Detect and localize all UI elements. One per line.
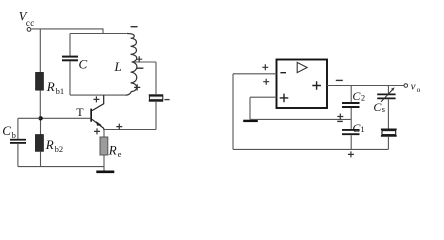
svg-text:R: R bbox=[45, 137, 54, 152]
wire C2 top lead bbox=[350, 86, 352, 103]
svg-text:o: o bbox=[417, 85, 421, 94]
plus left of Re top bbox=[94, 128, 100, 134]
svg-text:e: e bbox=[118, 149, 122, 159]
wire tank left lower bbox=[69, 61, 71, 95]
capacitor C bbox=[62, 57, 88, 72]
plus below rail bbox=[348, 151, 354, 157]
svg-text:b2: b2 bbox=[55, 144, 64, 154]
node Vcc bbox=[19, 9, 35, 31]
ground bar bbox=[243, 120, 258, 122]
wire ground to C1C2 junction bbox=[250, 118, 351, 120]
wire inverting input bbox=[233, 73, 277, 75]
svg-text:s: s bbox=[382, 104, 385, 114]
wire left feedback vertical bbox=[232, 74, 234, 150]
wire tank bottom bbox=[70, 94, 127, 96]
wire Cs top lead bbox=[387, 86, 389, 94]
svg-text:1: 1 bbox=[360, 124, 364, 134]
wire inductor tap bbox=[132, 61, 156, 63]
resistor Rb2 bbox=[35, 121, 63, 167]
minus above inductor bbox=[131, 26, 138, 28]
wire base bbox=[41, 117, 91, 119]
svg-text:C: C bbox=[79, 57, 88, 72]
ground bbox=[96, 171, 114, 174]
wire C1 bottom lead bbox=[350, 135, 352, 149]
svg-text:v: v bbox=[411, 81, 416, 93]
plus at inductor bottom bbox=[134, 84, 140, 90]
capacitor Cb bbox=[2, 118, 40, 166]
wire output bbox=[327, 85, 404, 87]
capacitor Cs (variable) bbox=[373, 87, 395, 114]
capacitor C2 bbox=[342, 89, 365, 107]
crystal (right) bbox=[381, 129, 397, 136]
wire C2 to C1 bbox=[350, 108, 352, 129]
plus at tap bbox=[136, 56, 142, 62]
svg-text:C: C bbox=[2, 123, 11, 138]
svg-text:R: R bbox=[46, 79, 55, 94]
plus above emitter rail bbox=[116, 124, 122, 130]
terminal vo bbox=[404, 81, 421, 94]
minus below ground wire bbox=[337, 120, 343, 122]
plus above inverting input bbox=[262, 64, 268, 70]
minus above output wire bbox=[336, 79, 343, 81]
svg-text:T: T bbox=[76, 105, 84, 119]
plus below inverting input bbox=[263, 79, 269, 85]
resistor Rb1 bbox=[36, 29, 65, 116]
resistor Re bbox=[100, 130, 122, 171]
plus at C1 top bbox=[337, 114, 343, 120]
op-amp U1 bbox=[277, 60, 328, 109]
wire Vcc rail bbox=[31, 29, 103, 34]
minus right of crystal bbox=[164, 99, 169, 101]
transistor T bbox=[76, 95, 103, 129]
wire tank top bbox=[70, 33, 127, 35]
wire crystal top lead bbox=[155, 62, 157, 94]
wire noninverting ground drop bbox=[249, 97, 251, 119]
svg-text:b1: b1 bbox=[56, 86, 65, 96]
crystal (left) bbox=[149, 95, 163, 101]
svg-text:2: 2 bbox=[361, 93, 365, 103]
minus below tap bbox=[136, 67, 143, 69]
wire tank left upper bbox=[69, 34, 71, 56]
wire emitter rail bbox=[104, 129, 156, 131]
svg-text:R: R bbox=[108, 143, 117, 158]
wire crystal bottom lead bbox=[155, 102, 157, 130]
junction dot bbox=[38, 116, 42, 120]
svg-text:L: L bbox=[114, 59, 122, 74]
wire Cs to crystal bbox=[387, 99, 389, 128]
svg-text:cc: cc bbox=[26, 18, 35, 28]
plus at collector bbox=[93, 96, 99, 102]
wire bottom feedback rail bbox=[233, 148, 388, 150]
inductor L bbox=[114, 34, 137, 96]
wire crystal bottom lead bbox=[387, 137, 389, 150]
wire bottom rail bbox=[18, 166, 104, 168]
capacitor C1 bbox=[342, 121, 365, 135]
svg-text:b: b bbox=[12, 130, 16, 140]
wire noninverting input bbox=[250, 96, 277, 98]
